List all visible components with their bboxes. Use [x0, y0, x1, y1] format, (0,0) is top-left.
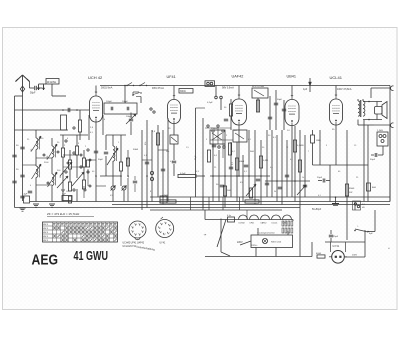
svg-text:47k: 47k	[145, 142, 147, 145]
svg-text:AEG: AEG	[32, 252, 59, 269]
svg-text:2: 2	[169, 233, 170, 235]
svg-text:50pF: 50pF	[277, 99, 283, 101]
svg-text:98V 0,9mA: 98V 0,9mA	[222, 87, 234, 90]
svg-text:8: 8	[170, 225, 171, 227]
svg-text:ZF = 473 kHz ≈ 15,7kHz: ZF = 473 kHz ≈ 15,7kHz	[47, 212, 80, 216]
svg-text:5: 5	[160, 227, 161, 229]
svg-text:U/Y41: U/Y41	[333, 245, 340, 248]
svg-text:0,1μF: 0,1μF	[207, 102, 213, 104]
svg-text:UAF42: UAF42	[232, 75, 244, 79]
svg-text:MW·K: MW·K	[43, 236, 49, 238]
svg-text:UCH 42: UCH 42	[88, 75, 103, 80]
svg-text:7: 7	[140, 224, 141, 226]
svg-text:3: 3	[165, 234, 166, 236]
svg-text:220V≈: 220V≈	[251, 244, 258, 247]
svg-text:30pF: 30pF	[195, 155, 197, 160]
svg-text:50: 50	[60, 176, 62, 178]
svg-text:7: 7	[166, 223, 167, 225]
svg-text:NSG 1214: NSG 1214	[271, 242, 282, 244]
svg-text:5: 5	[133, 227, 134, 229]
svg-text:Trockengleichrichter: Trockengleichrichter	[257, 232, 275, 235]
svg-text:1k: 1k	[302, 177, 304, 179]
svg-text:30kΩ: 30kΩ	[133, 149, 139, 151]
svg-text:MW·K: MW·K	[43, 228, 49, 230]
svg-text:UF41: UF41	[250, 222, 255, 224]
svg-text:UY41: UY41	[160, 243, 166, 245]
svg-text:MW·K: MW·K	[43, 240, 49, 242]
svg-text:220V: 220V	[237, 241, 243, 244]
svg-text:500Ω 9mA: 500Ω 9mA	[101, 87, 113, 90]
svg-text:950Ω: 950Ω	[349, 188, 355, 190]
svg-text:UCL41: UCL41	[330, 75, 343, 80]
svg-text:50+50μF: 50+50μF	[312, 209, 322, 211]
svg-text:5kΩ: 5kΩ	[250, 151, 254, 153]
svg-text:0,1μF: 0,1μF	[180, 173, 186, 175]
svg-text:50k: 50k	[166, 151, 169, 153]
svg-text:6: 6	[136, 224, 137, 226]
svg-text:4: 4	[133, 231, 134, 233]
svg-text:4μF: 4μF	[24, 194, 28, 196]
svg-text:UF41: UF41	[167, 75, 176, 79]
svg-text:50pF: 50pF	[30, 92, 36, 95]
svg-text:UB41: UB41	[287, 75, 297, 79]
svg-text:MW·K: MW·K	[43, 232, 49, 234]
svg-text:100pF: 100pF	[106, 101, 113, 103]
svg-text:100pF: 100pF	[122, 101, 129, 103]
svg-text:UCL41/UY41: UCL41/UY41	[123, 246, 137, 248]
svg-text:3: 3	[136, 234, 137, 236]
svg-text:UCL41: UCL41	[272, 222, 278, 224]
svg-text:1: 1	[171, 229, 172, 231]
svg-text:2: 2	[140, 234, 141, 236]
svg-text:1kΩ: 1kΩ	[227, 190, 231, 192]
svg-text:UAF42: UAF42	[261, 221, 267, 224]
svg-text:0,3MΩ: 0,3MΩ	[297, 145, 304, 147]
svg-text:600Ω: 600Ω	[316, 253, 321, 255]
svg-text:4μF: 4μF	[62, 194, 66, 196]
svg-text:UCH42: UCH42	[239, 222, 245, 224]
svg-text:25μF: 25μF	[333, 236, 339, 238]
svg-text:300Ω: 300Ω	[180, 91, 186, 93]
svg-text:4,7kΩ: 4,7kΩ	[162, 195, 168, 197]
svg-text:50μF: 50μF	[370, 159, 376, 161]
svg-text:1,2kΩ: 1,2kΩ	[377, 130, 383, 132]
svg-text:MW·K: MW·K	[43, 224, 49, 226]
svg-text:RÖV 6,7mA: RÖV 6,7mA	[252, 85, 264, 88]
svg-text:0,3M: 0,3M	[263, 160, 268, 162]
svg-text:300: 300	[31, 149, 33, 152]
svg-text:20μF: 20μF	[317, 177, 323, 179]
svg-text:50kΩ: 50kΩ	[239, 161, 245, 163]
svg-text:100V 47,8mA: 100V 47,8mA	[337, 88, 352, 91]
svg-text:W-ANSL: W-ANSL	[47, 81, 57, 84]
svg-text:50pF: 50pF	[98, 159, 104, 161]
svg-text:5k: 5k	[274, 191, 276, 193]
svg-text:1: 1	[143, 231, 144, 233]
svg-text:4: 4	[161, 231, 162, 233]
svg-text:8: 8	[143, 227, 144, 229]
svg-text:1μF: 1μF	[303, 88, 308, 91]
svg-text:200V: 200V	[352, 255, 358, 257]
svg-text:UCH42 UF41 UAF42: UCH42 UF41 UAF42	[123, 242, 145, 245]
svg-text:0,1μ: 0,1μ	[227, 215, 231, 217]
svg-text:6: 6	[162, 224, 163, 226]
svg-text:41 GWU: 41 GWU	[74, 249, 109, 263]
svg-text:8kΩ: 8kΩ	[372, 187, 376, 189]
svg-text:RSV 67mA: RSV 67mA	[152, 87, 164, 90]
svg-text:3000: 3000	[47, 156, 49, 160]
